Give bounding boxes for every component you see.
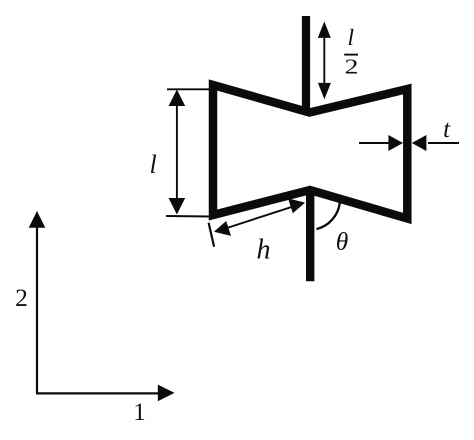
svg-text:t: t [443, 116, 451, 143]
top vertical strut [302, 16, 310, 112]
bottom vertical strut [306, 190, 314, 281]
svg-text:2: 2 [15, 283, 28, 312]
dimension t left arrowhead [388, 135, 403, 151]
dimension l up arrowhead [169, 90, 186, 107]
svg-text:2: 2 [345, 55, 359, 78]
bowtie cell wall outline [213, 85, 407, 219]
dimension h right arrowhead [288, 198, 305, 213]
dimension l extension line top [167, 88, 212, 90]
svg-text:l: l [348, 25, 355, 51]
dimension l/2 arrow line [323, 34, 325, 85]
dimension l extension line bottom [166, 215, 211, 218]
dimension l arrow line [176, 103, 178, 200]
dimension h arrow line [227, 207, 293, 228]
dimension l/2 down arrowhead [318, 83, 331, 99]
svg-text:h: h [257, 234, 271, 265]
dimension h end tick [209, 223, 215, 247]
svg-text:θ: θ [336, 227, 349, 256]
svg-text:l: l [150, 150, 157, 179]
dimension t right arrow line [428, 142, 459, 144]
axis 1 arrowhead [158, 385, 175, 402]
dimension l down arrowhead [169, 198, 186, 215]
dimension t right arrowhead [412, 135, 427, 151]
axis 2 arrowhead [29, 211, 46, 228]
dimension t left arrow line [359, 142, 390, 144]
svg-text:1: 1 [133, 399, 146, 426]
axis 2 (vertical) line [36, 225, 38, 393]
dimension h left arrowhead [214, 221, 231, 236]
dimension l/2 up arrowhead [318, 22, 331, 38]
axis 1 (horizontal) line [36, 392, 160, 394]
fraction bar [344, 54, 358, 56]
angle theta arc [317, 203, 340, 229]
